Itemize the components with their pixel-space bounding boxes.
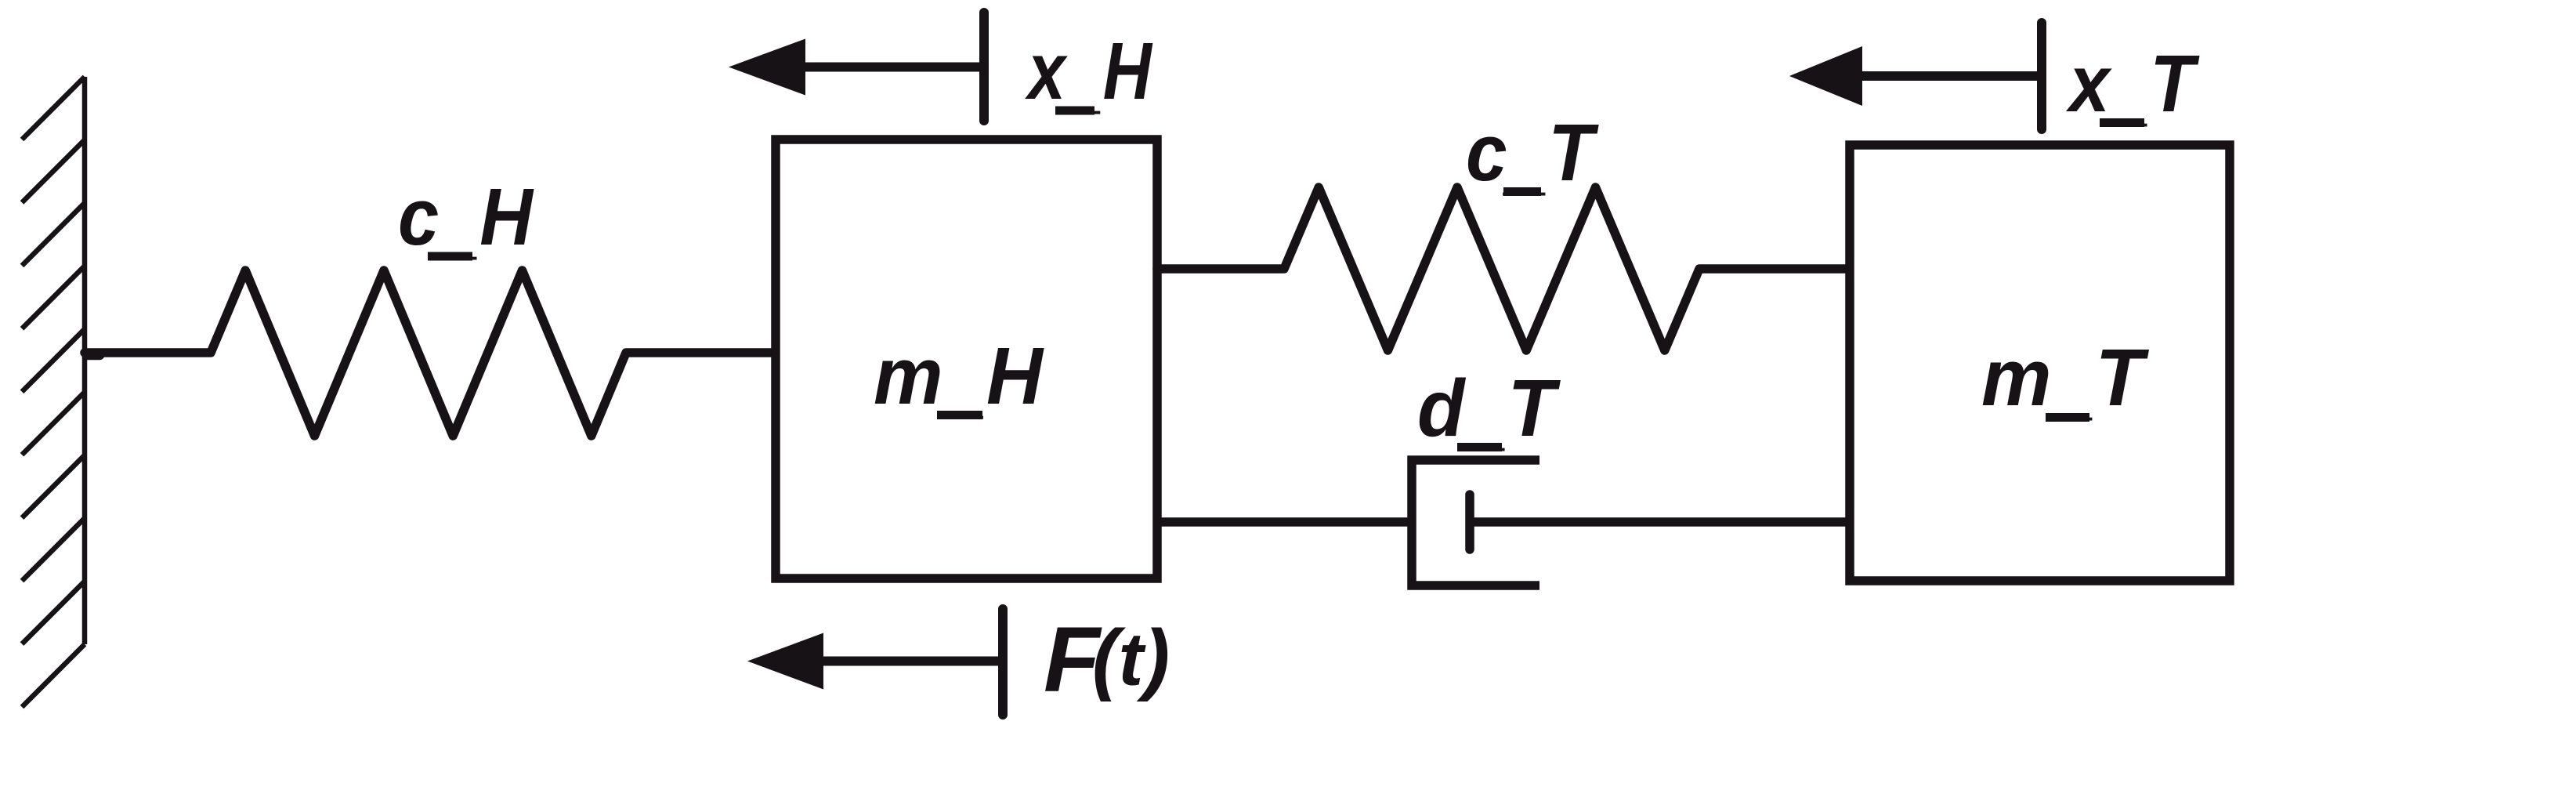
svg-text:m_H: m_H [874, 331, 1045, 426]
svg-text:x_H: x_H [1025, 26, 1153, 121]
svg-text:m_T: m_T [1981, 332, 2150, 428]
svg-text:(t): (t) [1092, 614, 1170, 702]
svg-text:c_T: c_T [1466, 107, 1599, 203]
svg-text:c_H: c_H [398, 172, 534, 267]
svg-text:x_T: x_T [2065, 38, 2200, 134]
svg-text:d_T: d_T [1417, 363, 1561, 459]
